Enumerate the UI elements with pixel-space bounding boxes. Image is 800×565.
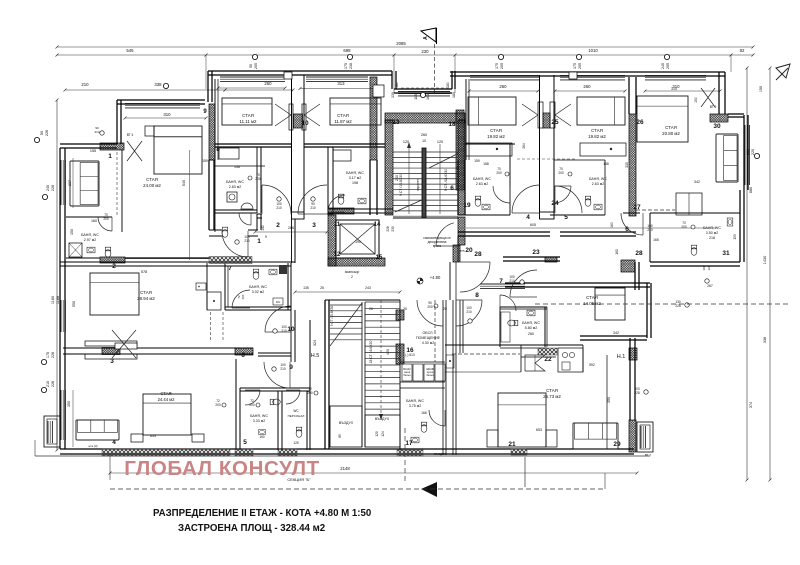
svg-text:ВТ 6: ВТ 6 bbox=[710, 105, 717, 109]
svg-text:153: 153 bbox=[733, 234, 737, 240]
service room bottom bbox=[400, 361, 445, 363]
bath 2.63a bottom bbox=[458, 214, 510, 216]
svg-text:266: 266 bbox=[288, 226, 294, 230]
svg-text:324: 324 bbox=[313, 340, 317, 346]
svg-text:3.33 м2: 3.33 м2 bbox=[253, 419, 265, 423]
wall bottom bath 31 bbox=[650, 261, 740, 263]
window strip bottom room 25.73 bbox=[511, 449, 527, 455]
svg-text:ПЕРСОНАЛ: ПЕРСОНАЛ bbox=[288, 414, 305, 418]
toilet bath 2.83 bbox=[222, 227, 228, 237]
door service room bbox=[417, 300, 443, 326]
chevron room 11.11 bbox=[275, 104, 291, 115]
pier right wing left wall low bbox=[458, 217, 465, 245]
stair right pier b bbox=[396, 344, 404, 364]
svg-text:237: 237 bbox=[68, 180, 72, 186]
door bath 31 bbox=[621, 213, 643, 235]
outer wall right mid bbox=[739, 190, 741, 262]
svg-text:135: 135 bbox=[303, 286, 309, 290]
svg-text:180: 180 bbox=[446, 82, 450, 88]
hatch bottom wc b bbox=[278, 449, 297, 456]
svg-text:160: 160 bbox=[259, 435, 265, 439]
svg-text:9: 9 bbox=[289, 364, 293, 371]
dim 210 bbox=[65, 89, 225, 91]
stair stringer bbox=[422, 148, 426, 218]
door 7 hall bbox=[510, 270, 537, 297]
svg-text:1: 1 bbox=[257, 238, 261, 245]
svg-text:11: 11 bbox=[334, 222, 341, 228]
svg-text:180: 180 bbox=[452, 92, 456, 98]
svg-text:228: 228 bbox=[675, 304, 681, 308]
left balcony shaft bbox=[44, 416, 60, 447]
svg-text:635: 635 bbox=[150, 434, 156, 438]
outer wall top right wing bbox=[450, 71, 725, 73]
svg-text:22: 22 bbox=[544, 356, 552, 363]
wall bath 2.97 top bbox=[66, 216, 112, 218]
bed room 19.82a bbox=[468, 97, 516, 125]
svg-text:РАЗПРЕДЕЛЕНИЕ II ЕТАЖ - КОТА +: РАЗПРЕДЕЛЕНИЕ II ЕТАЖ - КОТА +4.80 М 1:5… bbox=[153, 508, 371, 519]
svg-text:4.30 м2: 4.30 м2 bbox=[422, 341, 434, 345]
svg-text:125: 125 bbox=[293, 441, 299, 445]
corridor walls left wing bbox=[209, 229, 222, 231]
dashed axis x405 bbox=[404, 428, 406, 481]
chevron rw room 19.82b bbox=[555, 104, 571, 115]
svg-text:205: 205 bbox=[500, 63, 504, 69]
svg-text:БАНЯ, WC: БАНЯ, WC bbox=[473, 177, 491, 181]
bath 3.17 walls bbox=[327, 147, 329, 213]
svg-text:3.02 м2: 3.02 м2 bbox=[252, 290, 264, 294]
svg-text:ВЪЗДУХ: ВЪЗДУХ bbox=[434, 452, 446, 456]
svg-text:14.05 м2: 14.05 м2 bbox=[583, 301, 601, 306]
svg-text:5.80 м2: 5.80 м2 bbox=[525, 326, 537, 330]
wall rooms bottom left wing a bbox=[215, 143, 291, 145]
bottom wall room 14.05 bbox=[580, 335, 647, 337]
svg-text:БАНЯ, WC: БАНЯ, WC bbox=[81, 233, 99, 237]
svg-text:550: 550 bbox=[72, 301, 76, 307]
svg-text:17: 17 bbox=[405, 440, 413, 447]
svg-text:СТАЯ: СТАЯ bbox=[490, 128, 502, 133]
nightstand 24.44 l bbox=[131, 434, 143, 442]
svg-text:18 СТ 16.6Х30: 18 СТ 16.6Х30 bbox=[369, 341, 373, 364]
shower bath 2.97 bbox=[69, 243, 82, 257]
svg-text:190: 190 bbox=[355, 240, 361, 244]
svg-text:150: 150 bbox=[70, 229, 74, 235]
svg-text:1010: 1010 bbox=[588, 48, 598, 53]
svg-text:25: 25 bbox=[551, 119, 559, 126]
svg-text:5: 5 bbox=[243, 439, 247, 446]
svg-text:260: 260 bbox=[528, 332, 534, 336]
svg-text:3.50 м2: 3.50 м2 bbox=[706, 231, 718, 235]
svg-text:СТАЯ: СТАЯ bbox=[591, 128, 603, 133]
svg-text:205: 205 bbox=[666, 63, 670, 69]
svg-text:200: 200 bbox=[249, 403, 255, 407]
air shaft mid bbox=[365, 415, 400, 447]
svg-text:парапет: парапет bbox=[416, 179, 420, 191]
svg-text:25: 25 bbox=[443, 307, 447, 311]
svg-text:8: 8 bbox=[216, 146, 220, 153]
wall post right bbox=[302, 104, 306, 130]
svg-text:СТАЯ: СТАЯ bbox=[140, 290, 152, 295]
dashed line 27 bbox=[636, 209, 675, 211]
svg-text:210: 210 bbox=[509, 279, 515, 283]
corridor wall below pillar bbox=[291, 219, 293, 263]
svg-text:200: 200 bbox=[558, 171, 564, 175]
svg-text:350: 350 bbox=[67, 401, 71, 407]
chevron rw room 19.82a bbox=[522, 104, 538, 115]
svg-text:50: 50 bbox=[40, 131, 44, 135]
svg-text:210: 210 bbox=[466, 310, 472, 314]
svg-text:228: 228 bbox=[51, 381, 55, 387]
window left wall room 24.44 bbox=[60, 390, 62, 440]
window cross room 20.80 bbox=[701, 88, 715, 107]
svg-text:210: 210 bbox=[81, 82, 89, 87]
wall bath 2.83 inner bbox=[215, 165, 265, 167]
svg-text:605: 605 bbox=[530, 223, 536, 227]
window strip bottom room 24.44 bbox=[102, 449, 230, 456]
svg-text:226: 226 bbox=[51, 352, 55, 358]
door bath 2.97 bbox=[98, 217, 112, 231]
outer wall top-left block bbox=[117, 99, 205, 101]
svg-text:СТАЯ: СТАЯ bbox=[586, 295, 598, 300]
step wall x208 bbox=[207, 71, 209, 102]
outer wall stair notch bbox=[394, 88, 452, 90]
svg-text:680: 680 bbox=[749, 187, 753, 193]
bed room 14.05 bbox=[595, 288, 625, 320]
svg-text:205: 205 bbox=[578, 63, 582, 69]
svg-text:ВЪЗДУХ: ВЪЗДУХ bbox=[339, 421, 354, 425]
kitchen left wall bbox=[459, 300, 461, 353]
sink bath 2.97 bbox=[87, 247, 95, 253]
svg-text:30L: 30L bbox=[276, 300, 281, 304]
nightstand 24.44 r bbox=[192, 434, 204, 442]
toilet bath 5.80 bbox=[508, 320, 518, 326]
svg-text:166: 166 bbox=[421, 411, 427, 415]
hall wall right wing bbox=[503, 256, 560, 258]
door bath 3.02 bbox=[232, 290, 250, 308]
svg-text:26: 26 bbox=[403, 307, 407, 311]
svg-text:28.94 м2: 28.94 м2 bbox=[137, 296, 155, 301]
door 3 bbox=[298, 185, 327, 214]
small arrow top-right bbox=[776, 64, 790, 78]
svg-text:175: 175 bbox=[573, 63, 577, 69]
window left wall room 28.94 bbox=[60, 300, 62, 332]
svg-text:2.63 м2: 2.63 м2 bbox=[592, 182, 604, 186]
svg-text:31: 31 bbox=[722, 250, 730, 257]
chevron room 11.87 bbox=[304, 104, 320, 115]
svg-text:210: 210 bbox=[647, 228, 653, 232]
svg-text:200: 200 bbox=[681, 225, 687, 229]
bath 2.63a top bbox=[465, 143, 515, 145]
pier axis 3 hatch bbox=[102, 348, 120, 355]
hatch bottom wc a bbox=[235, 449, 253, 456]
section marker A top bbox=[421, 28, 436, 42]
sink bath 31 bbox=[727, 218, 733, 226]
svg-text:578: 578 bbox=[141, 270, 147, 274]
pocket door cross bbox=[112, 330, 136, 358]
kitchen wall 22 bbox=[445, 344, 583, 346]
party wall pier axis 9/8 bbox=[209, 104, 215, 160]
window room 11.11 bbox=[220, 76, 285, 78]
svg-text:2148: 2148 bbox=[340, 466, 350, 471]
svg-text:7: 7 bbox=[499, 278, 503, 285]
toilet wc personal bbox=[296, 427, 302, 437]
svg-text:ПОМЕЩЕНИЕ: ПОМЕЩЕНИЕ bbox=[416, 336, 441, 340]
svg-text:85: 85 bbox=[338, 434, 342, 438]
dashed corridor rw bbox=[517, 158, 575, 160]
dim 310 bbox=[125, 117, 206, 119]
svg-text:19.82 м2: 19.82 м2 bbox=[588, 134, 606, 139]
wall pier axis 30 bbox=[710, 114, 728, 122]
dashed wall x210 bbox=[210, 312, 212, 340]
sofa living left bbox=[70, 161, 99, 206]
stair right wall hatch bbox=[458, 120, 465, 215]
door to stairwell 20 bbox=[436, 223, 454, 246]
svg-text:асансьор: асансьор bbox=[345, 270, 360, 274]
bath 2.63b bottom bbox=[550, 214, 605, 216]
outer wall right balcony bbox=[743, 115, 745, 190]
stair mid wall a bbox=[361, 302, 363, 447]
svg-text:ГЛОБАЛ КОНСУЛТ: ГЛОБАЛ КОНСУЛТ bbox=[124, 457, 320, 480]
dashed wardrobe left bbox=[116, 152, 118, 215]
window top-left block bbox=[125, 103, 200, 105]
svg-text:ВТ5: ВТ5 bbox=[459, 249, 465, 253]
svg-text:30: 30 bbox=[713, 123, 721, 130]
window room 19.82b bbox=[560, 75, 625, 77]
bed room 20.80 bbox=[637, 96, 688, 142]
step top right balcony bbox=[728, 113, 744, 115]
sink bath 3.17 bbox=[358, 198, 366, 204]
svg-text:82: 82 bbox=[740, 48, 745, 53]
svg-text:200: 200 bbox=[241, 294, 245, 299]
wall left party lower bbox=[208, 160, 210, 230]
svg-text:28: 28 bbox=[474, 251, 482, 258]
svg-text:БАНЯ, WC: БАНЯ, WC bbox=[406, 399, 424, 403]
svg-text:19.82 м2: 19.82 м2 bbox=[487, 134, 505, 139]
svg-text:9 СТ /15.8Х30: 9 СТ /15.8Х30 bbox=[399, 174, 403, 196]
kitchen appliances right bbox=[558, 348, 583, 372]
svg-text:210: 210 bbox=[244, 239, 250, 243]
svg-text:бельо: бельо bbox=[403, 373, 411, 377]
svg-text:24: 24 bbox=[551, 200, 559, 207]
svg-text:СТАЯ: СТАЯ bbox=[546, 388, 558, 393]
window room 19.82a bbox=[470, 75, 540, 77]
outer wall bottom mid bbox=[305, 448, 460, 450]
washer bath 2.83 bbox=[227, 192, 237, 202]
svg-text:11.87 м2: 11.87 м2 bbox=[334, 119, 352, 124]
svg-text:2.97 м2: 2.97 м2 bbox=[84, 238, 96, 242]
party wall a hatch core bbox=[543, 113, 550, 128]
svg-text:260: 260 bbox=[499, 84, 507, 89]
bath 2.63a right bbox=[509, 144, 511, 215]
svg-text:350: 350 bbox=[607, 397, 611, 403]
lower stair flight left bbox=[330, 304, 362, 306]
wc 3.33 / wc personal walls bbox=[235, 359, 237, 450]
svg-text:226: 226 bbox=[51, 185, 55, 191]
door wc personal bbox=[286, 390, 300, 404]
bed room 11.11 bbox=[222, 98, 272, 125]
window stair landing bbox=[398, 91, 450, 93]
bed room 25.73 bbox=[498, 393, 546, 447]
sink bath 3.75 bbox=[411, 437, 419, 443]
svg-text:264: 264 bbox=[522, 143, 526, 149]
wall rooms 28.94/24.44 bbox=[63, 347, 253, 349]
door bath 2.63a bbox=[493, 186, 510, 203]
svg-text:218: 218 bbox=[709, 236, 715, 240]
svg-text:26: 26 bbox=[369, 307, 373, 311]
sink wc 3.33 bbox=[259, 430, 266, 435]
corridor double walls right of stair bbox=[442, 300, 444, 455]
window swing room 24.00 bbox=[127, 141, 142, 161]
svg-text:338: 338 bbox=[154, 82, 162, 87]
svg-text:210: 210 bbox=[46, 381, 50, 387]
svg-text:16: 16 bbox=[406, 347, 414, 354]
dashed axis y354 bbox=[452, 353, 520, 355]
window room 14.05 bbox=[480, 283, 525, 285]
svg-text:6: 6 bbox=[241, 352, 245, 359]
svg-text:БАНЯ, WC: БАНЯ, WC bbox=[346, 171, 364, 175]
svg-text:210: 210 bbox=[310, 206, 316, 210]
wall room 28.94 top second line bbox=[60, 265, 291, 267]
svg-text:24.44 м2: 24.44 м2 bbox=[158, 397, 176, 402]
svg-text:6: 6 bbox=[450, 185, 454, 192]
svg-text:H.5: H.5 bbox=[311, 353, 320, 359]
pier below bath 31 bbox=[621, 260, 635, 272]
svg-text:220: 220 bbox=[751, 149, 755, 155]
svg-text:200: 200 bbox=[103, 217, 109, 221]
svg-text:260: 260 bbox=[583, 84, 591, 89]
svg-text:175: 175 bbox=[495, 63, 499, 69]
svg-text:2: 2 bbox=[276, 222, 280, 229]
wall pier room 11.87 right bbox=[370, 77, 377, 160]
bed room 24.00 bbox=[154, 126, 202, 174]
tub bath 3.17 bbox=[333, 150, 351, 161]
service cabinets bbox=[402, 364, 412, 381]
sofa balcony right bbox=[716, 134, 738, 182]
party wall right wing a bbox=[539, 75, 541, 219]
cabinet corridor left bbox=[207, 292, 221, 310]
svg-text:26: 26 bbox=[636, 119, 644, 126]
svg-text:18: 18 bbox=[448, 121, 456, 128]
svg-text:БАНЯ, WC: БАНЯ, WC bbox=[249, 285, 267, 289]
svg-text:врата: врата bbox=[433, 244, 442, 248]
svg-text:3: 3 bbox=[110, 358, 114, 365]
kitchen counter 22 bbox=[521, 356, 556, 358]
svg-text:9 СТ /15.8Х30: 9 СТ /15.8Х30 bbox=[330, 306, 334, 327]
svg-text:WC: WC bbox=[293, 409, 299, 413]
svg-text:ВТ 7: ВТ 7 bbox=[645, 453, 651, 457]
door bath 3.17 bbox=[328, 195, 345, 212]
door wc 3.33 bbox=[245, 390, 260, 405]
svg-text:200: 200 bbox=[255, 177, 261, 181]
room 19.82a left wall bbox=[465, 79, 467, 160]
svg-text:4: 4 bbox=[526, 214, 530, 221]
stair top wall hatch bbox=[385, 113, 465, 123]
party wall hatch core bbox=[294, 114, 303, 128]
door 5 bbox=[555, 186, 582, 213]
outer wall left bbox=[59, 148, 61, 449]
svg-text:310: 310 bbox=[163, 112, 171, 117]
svg-text:130: 130 bbox=[391, 92, 395, 98]
cabinets bottom bbox=[400, 381, 445, 383]
svg-text:158: 158 bbox=[603, 162, 609, 166]
dashed axis x435 bbox=[434, 300, 436, 362]
svg-text:545: 545 bbox=[126, 48, 134, 53]
svg-text:118: 118 bbox=[414, 94, 418, 100]
svg-text:226: 226 bbox=[45, 130, 49, 136]
door bath 2.63b bbox=[554, 186, 571, 203]
dashed wall x236 bbox=[235, 359, 237, 388]
balcony window box right bbox=[637, 422, 653, 452]
wall post a1 bbox=[538, 102, 543, 128]
dim line 540 bbox=[189, 150, 191, 260]
bed room 19.82b bbox=[577, 97, 625, 125]
svg-text:20.80 м2: 20.80 м2 bbox=[662, 131, 680, 136]
wall inner left room bbox=[121, 150, 123, 232]
svg-text:3: 3 bbox=[312, 222, 316, 229]
svg-text:7: 7 bbox=[228, 265, 232, 272]
top wall room 14.05 bbox=[505, 282, 650, 284]
svg-text:25.73 м2: 25.73 м2 bbox=[543, 394, 561, 399]
svg-text:6: 6 bbox=[625, 226, 629, 233]
svg-text:240: 240 bbox=[661, 63, 665, 69]
svg-text:A: A bbox=[423, 36, 429, 40]
svg-text:бельо: бельо bbox=[426, 373, 434, 377]
air shaft left bbox=[330, 406, 362, 447]
toilet wc 3.33 bbox=[270, 399, 280, 405]
svg-text:БАНЯ, WC: БАНЯ, WC bbox=[250, 414, 268, 418]
toilet bath 3.02 bbox=[253, 269, 259, 279]
stair lower right wall bbox=[399, 300, 401, 450]
toilet bath 2.63a bbox=[475, 196, 481, 206]
svg-text:2: 2 bbox=[112, 263, 116, 270]
svg-text:163: 163 bbox=[426, 94, 430, 100]
svg-text:2085: 2085 bbox=[396, 41, 406, 46]
wall bath 2.83 left bbox=[214, 160, 216, 232]
bath 31 top bbox=[650, 212, 740, 214]
wall stair/bath right wing bbox=[457, 160, 459, 215]
svg-text:20: 20 bbox=[465, 247, 473, 254]
ac mark room 28.94 bbox=[196, 283, 206, 290]
svg-text:БАНЯ, WC: БАНЯ, WC bbox=[522, 321, 540, 325]
svg-text:19: 19 bbox=[463, 202, 471, 209]
bed room 24.44 bbox=[143, 394, 191, 435]
wall rooms bottom left wing b bbox=[304, 143, 385, 145]
svg-text:11.11 м2: 11.11 м2 bbox=[239, 119, 257, 124]
svg-text:3.17 м2: 3.17 м2 bbox=[349, 176, 361, 180]
bath 3.75 top bbox=[400, 387, 445, 389]
pier axis 6 hatch bbox=[235, 348, 253, 355]
svg-text:БАНЯ, WC: БАНЯ, WC bbox=[589, 177, 607, 181]
door bath 2.83 bbox=[239, 213, 251, 225]
door 9 left bbox=[264, 362, 290, 388]
svg-text:210: 210 bbox=[280, 367, 286, 371]
bottom dim 2148 bbox=[110, 472, 637, 474]
table symbol under 22 bbox=[525, 355, 545, 371]
svg-text:12: 12 bbox=[334, 252, 341, 258]
toilet bath 2.63b bbox=[585, 196, 591, 206]
svg-text:СТАЯ: СТАЯ bbox=[160, 391, 171, 396]
right wall room 14.05 bbox=[646, 283, 648, 338]
hatch bath 3.17 bottom bbox=[328, 208, 354, 214]
svg-text:653: 653 bbox=[536, 428, 542, 432]
svg-text:155: 155 bbox=[90, 149, 96, 153]
elevator shaft bbox=[328, 215, 336, 266]
svg-text:ВТ 4: ВТ 4 bbox=[127, 133, 134, 137]
svg-text:2.83 м2: 2.83 м2 bbox=[229, 185, 241, 189]
half-round sink bath 2.83 bbox=[241, 203, 253, 209]
svg-text:10: 10 bbox=[287, 326, 295, 333]
svg-text:240: 240 bbox=[395, 175, 399, 181]
party wall rooms 11.11/11.87 bbox=[291, 75, 293, 219]
